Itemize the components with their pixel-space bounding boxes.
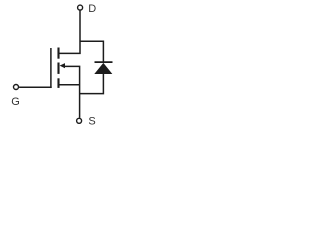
MOSFET gate bar (50, 48, 52, 88)
wire source stub (58, 84, 80, 86)
svg-text:G: G (11, 96, 20, 108)
MOSFET channel segment middle (57, 63, 59, 74)
wire body stub and source vertical down to S terminal (65, 66, 80, 118)
svg-text:D: D (88, 3, 96, 15)
wire gate (19, 86, 52, 88)
MOSFET body arrow (60, 63, 65, 68)
MOSFET channel segment top (57, 48, 59, 59)
diode anode triangle (94, 63, 112, 74)
MOSFET channel segment bottom (57, 78, 59, 88)
wire drain vertical and corner to top channel stub (58, 10, 80, 53)
diode cathode bar (95, 61, 113, 63)
svg-text:S: S (88, 115, 95, 127)
wire diode anode down and left to source branch (80, 74, 104, 94)
terminal S (77, 118, 82, 123)
wire drain branch to diode cathode (80, 41, 103, 61)
terminal G (14, 85, 19, 90)
terminal D (78, 5, 83, 10)
